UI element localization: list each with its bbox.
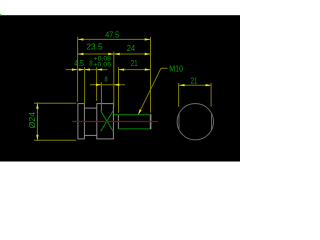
svg-text:21: 21 [131, 59, 138, 68]
svg-text:+0.06: +0.06 [93, 63, 112, 69]
svg-text:+0.08: +0.08 [94, 56, 112, 62]
svg-text:23.5: 23.5 [86, 43, 103, 52]
svg-text:8: 8 [105, 77, 108, 84]
svg-text:24: 24 [127, 44, 136, 53]
svg-text:Ø24: Ø24 [28, 112, 37, 129]
svg-text:4.5: 4.5 [74, 59, 84, 68]
svg-text:8: 8 [89, 59, 92, 68]
svg-text:47.5: 47.5 [105, 31, 119, 40]
svg-text:M10: M10 [169, 64, 183, 73]
svg-text:21: 21 [191, 77, 198, 86]
